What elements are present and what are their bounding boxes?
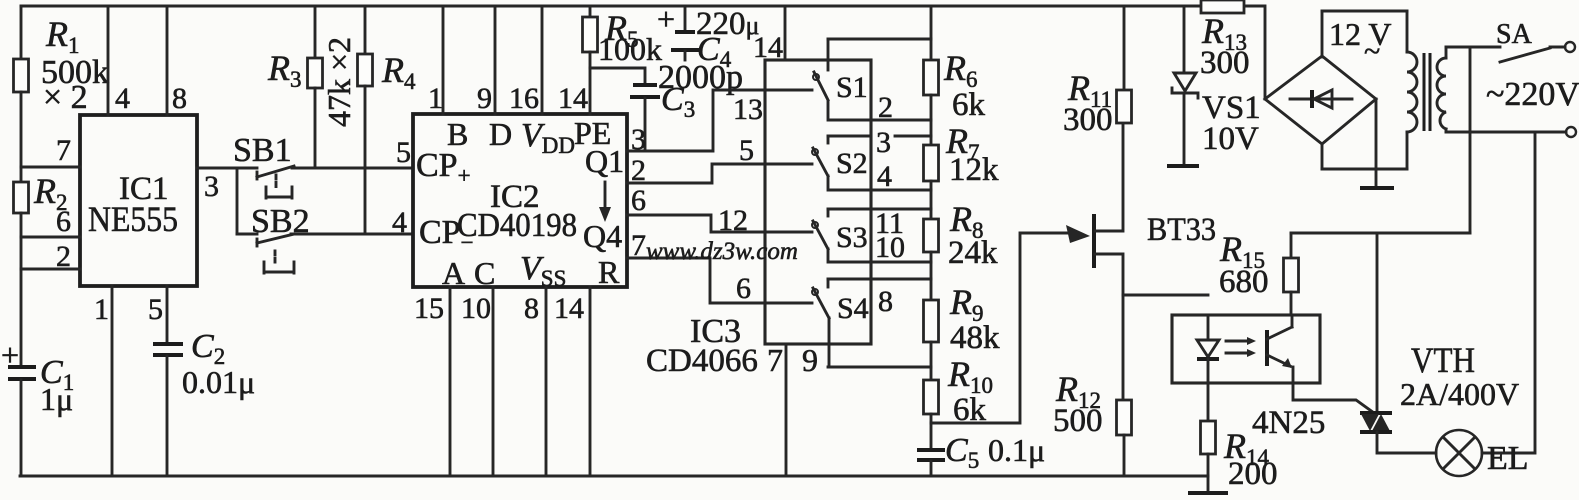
svg-text:3: 3 (631, 123, 646, 156)
svg-text:10V: 10V (1202, 121, 1259, 157)
svg-text:S1: S1 (836, 71, 868, 104)
svg-text:15: 15 (414, 292, 444, 325)
svg-text:R: R (598, 254, 620, 290)
svg-text:~: ~ (1364, 35, 1380, 68)
svg-text:www.dz3w.com: www.dz3w.com (646, 238, 798, 265)
svg-text:14: 14 (753, 31, 783, 64)
svg-text:NE555: NE555 (88, 199, 178, 239)
svg-text:14: 14 (558, 82, 588, 115)
svg-text:1μ: 1μ (40, 381, 73, 417)
svg-text:24k: 24k (948, 235, 998, 271)
svg-text:D: D (489, 116, 512, 152)
svg-text:6: 6 (56, 205, 71, 238)
svg-text:300: 300 (1200, 45, 1250, 81)
svg-text:Q4: Q4 (583, 218, 622, 254)
svg-text:SB1: SB1 (233, 132, 292, 169)
svg-text:5: 5 (396, 136, 411, 169)
svg-text:9: 9 (802, 342, 818, 378)
svg-text:× 2: × 2 (43, 79, 88, 116)
svg-text:2A/400V: 2A/400V (1400, 376, 1519, 412)
svg-text:7: 7 (767, 342, 783, 378)
svg-text:300: 300 (1063, 102, 1113, 138)
svg-text:7: 7 (56, 134, 71, 167)
svg-text:1: 1 (94, 293, 109, 326)
svg-text:47k ×2: 47k ×2 (321, 37, 357, 127)
svg-text:3: 3 (204, 170, 219, 203)
svg-text:6: 6 (631, 184, 646, 217)
svg-text:EL: EL (1487, 440, 1529, 477)
svg-text:14: 14 (554, 292, 584, 325)
svg-text:0.01μ: 0.01μ (182, 364, 255, 400)
svg-text:6: 6 (736, 272, 751, 305)
svg-text:16: 16 (509, 82, 539, 115)
svg-text:10: 10 (461, 292, 491, 325)
svg-text:200: 200 (1228, 456, 1278, 492)
svg-text:8: 8 (172, 82, 187, 115)
svg-text:Q1: Q1 (585, 143, 624, 179)
svg-text:1: 1 (428, 82, 443, 115)
svg-text:12 V: 12 V (1329, 16, 1392, 52)
svg-text:680: 680 (1219, 264, 1269, 300)
svg-text:A: A (442, 255, 465, 291)
svg-text:4: 4 (877, 160, 892, 193)
svg-text:+: + (1, 337, 19, 373)
svg-text:13: 13 (733, 93, 763, 126)
svg-text:10: 10 (875, 231, 905, 264)
svg-text:SB2: SB2 (251, 203, 310, 240)
svg-text:8: 8 (878, 285, 893, 318)
svg-text:2: 2 (631, 154, 646, 187)
svg-text:48k: 48k (950, 320, 1000, 356)
svg-text:12: 12 (718, 204, 748, 237)
svg-text:S4: S4 (837, 292, 869, 325)
svg-text:+: + (657, 1, 675, 37)
svg-text:6k: 6k (952, 87, 986, 123)
svg-text:~220V: ~220V (1486, 76, 1579, 113)
svg-text:8: 8 (524, 292, 539, 325)
svg-text:S2: S2 (836, 147, 868, 180)
svg-text:7: 7 (631, 229, 646, 262)
svg-text:VTH: VTH (1411, 340, 1475, 380)
svg-text:4: 4 (392, 206, 407, 239)
svg-text:500: 500 (1053, 403, 1103, 439)
svg-text:S3: S3 (836, 221, 868, 254)
svg-text:BT33: BT33 (1147, 212, 1216, 248)
svg-text:4: 4 (115, 82, 130, 115)
svg-text:CD4066: CD4066 (646, 343, 758, 379)
svg-text:SA: SA (1496, 19, 1533, 50)
svg-text:5: 5 (148, 293, 163, 326)
svg-text:5: 5 (739, 134, 754, 167)
svg-text:CD40198: CD40198 (457, 207, 577, 244)
svg-text:4N25: 4N25 (1252, 405, 1325, 441)
svg-text:2: 2 (878, 91, 893, 124)
svg-text:100k: 100k (598, 31, 662, 67)
svg-text:2: 2 (56, 240, 71, 273)
svg-text:3: 3 (876, 126, 891, 159)
svg-text:12k: 12k (949, 152, 999, 188)
svg-text:0.1μ: 0.1μ (988, 432, 1045, 468)
svg-text:9: 9 (477, 82, 492, 115)
